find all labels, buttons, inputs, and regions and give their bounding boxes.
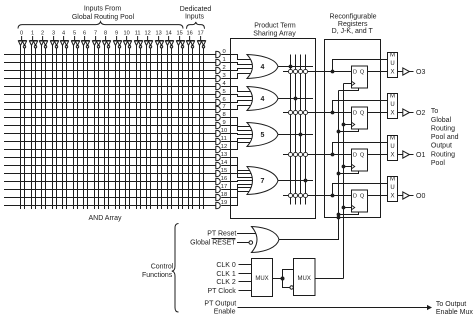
input 9 buffer pair (true/complement) — [113, 30, 121, 48]
svg-text:U: U — [390, 102, 394, 108]
flip-flop O2 (D Q register) — [352, 107, 368, 129]
svg-text:PT Output: PT Output — [204, 301, 236, 308]
wire: OR gate 2 output row — [278, 133, 313, 137]
svg-text:M: M — [390, 177, 395, 183]
input 10 buffer pair (true/complement) — [123, 30, 131, 48]
svg-text:D, J-K, and T: D, J-K, and T — [332, 28, 374, 35]
svg-text:Global RESET: Global RESET — [190, 239, 236, 246]
svg-text:10: 10 — [123, 30, 129, 36]
svg-text:M: M — [390, 53, 395, 59]
wire: CLK 2 input — [239, 281, 252, 283]
flip-flop O0 (D Q register) — [352, 190, 368, 212]
svg-text:AND Array: AND Array — [88, 215, 122, 222]
svg-text:Inputs: Inputs — [185, 14, 205, 21]
label: Inputs From Global Routing Pool — [72, 6, 135, 21]
svg-text:Functions: Functions — [142, 272, 173, 279]
product term 10 buffer and label — [216, 128, 227, 137]
input 5 buffer pair (true/complement) — [71, 30, 79, 48]
svg-text:Q: Q — [360, 153, 365, 159]
wire: PT 10 to OR gate input — [221, 134, 252, 135]
svg-text:U: U — [390, 61, 394, 67]
wire: PT 5 to OR gate input — [221, 95, 252, 97]
wire: PT 0 to OR gate input — [221, 55, 252, 60]
svg-text:O2: O2 — [416, 110, 425, 117]
wire: PT share output row O2 with fuse circles — [283, 110, 352, 114]
wire: PT 9 to OR gate input — [221, 126, 252, 131]
svg-text:14: 14 — [165, 30, 171, 36]
svg-text:4: 4 — [261, 96, 265, 103]
svg-text:D: D — [353, 194, 357, 200]
svg-text:PT Clock: PT Clock — [208, 288, 237, 295]
brace: control functions — [172, 224, 179, 313]
output buffer and label O2 — [398, 109, 426, 117]
wire: PT share output row O1 with fuse circles — [283, 152, 352, 156]
svg-text:1: 1 — [31, 30, 34, 36]
label: Global RESET (active low) — [190, 239, 236, 247]
svg-text:5: 5 — [261, 132, 265, 139]
svg-text:To Output: To Output — [436, 301, 466, 308]
product term 1 buffer and label — [216, 57, 226, 66]
svg-text:CLK 2: CLK 2 — [216, 279, 236, 286]
wire: CLK 1 input — [239, 273, 252, 275]
input 15 buffer pair (true/complement) — [176, 30, 184, 48]
svg-text:MUX: MUX — [255, 276, 268, 282]
junction: reset line at register box bottom — [337, 216, 341, 220]
OR gate (sum of 5 product terms) — [247, 123, 278, 147]
input 14 buffer pair (true/complement) — [165, 30, 173, 48]
wire: PT share output row O3 with fuse circles — [283, 69, 352, 73]
input 1 buffer pair (true/complement) — [29, 30, 37, 48]
product term 19 buffer and label — [216, 200, 227, 209]
wire: PT 12 to OR gate input — [221, 143, 252, 150]
svg-text:MUX: MUX — [298, 276, 311, 282]
svg-text:3: 3 — [52, 30, 55, 36]
product term 12 buffer and label — [216, 144, 227, 153]
input 16 buffer pair (true/complement) — [186, 30, 194, 48]
box: Product Term Sharing Array — [231, 39, 316, 219]
svg-text:2: 2 — [41, 30, 44, 36]
wire: product-term rows 0-19 (horizontal lines) — [4, 55, 216, 206]
wire: clock to register O2 — [342, 123, 352, 127]
svg-text:Routing: Routing — [431, 151, 455, 158]
svg-text:5: 5 — [73, 30, 76, 36]
output buffer and label O0 — [398, 192, 426, 200]
svg-text:12: 12 — [144, 30, 150, 36]
wire: clock MUX1 output — [273, 277, 285, 281]
svg-text:X: X — [390, 193, 394, 199]
wire: PT 13 to OR gate input — [221, 158, 252, 171]
svg-text:X: X — [390, 69, 394, 75]
svg-text:Global: Global — [431, 117, 452, 124]
flip-flop O3 (D Q register) — [352, 66, 368, 88]
svg-text:D: D — [353, 153, 357, 159]
box: Reconfigurable Registers — [325, 40, 381, 218]
wire: reset to register O0 — [337, 212, 359, 216]
wire: PT sharing array columns (4 vertical) — [291, 55, 306, 205]
svg-text:Product Term: Product Term — [254, 22, 296, 29]
svg-text:PT Reset: PT Reset — [207, 231, 236, 238]
label: Dedicated Inputs — [180, 6, 212, 21]
wire: AND array input columns (36 vertical lines) — [21, 46, 204, 210]
wire: PT Clock input — [239, 290, 252, 292]
wire: PT 3 to OR gate input — [221, 74, 252, 79]
wire: PT share output row O0 with fuse circles — [283, 193, 352, 197]
wire: PT 16 to OR gate input — [221, 181, 252, 182]
wire: PT Output Enable with arrow — [238, 305, 433, 310]
wire: PT 17 to OR gate input — [221, 185, 252, 190]
input 12 buffer pair (true/complement) — [144, 30, 152, 48]
svg-text:O3: O3 — [416, 69, 425, 76]
svg-text:17: 17 — [197, 30, 203, 36]
input 2 buffer pair (true/complement) — [39, 30, 47, 48]
product term 17 buffer and label — [216, 184, 227, 193]
label: To Output Enable Mux — [436, 301, 473, 316]
wire: O0 register bypass to MUX — [331, 184, 388, 198]
input 7 buffer pair (true/complement) — [92, 30, 100, 48]
svg-text:9: 9 — [115, 30, 118, 36]
label: To Global Routing Pool and Output Routing Pool — [431, 108, 459, 167]
svg-text:To: To — [431, 108, 439, 115]
output MUX for O1 — [388, 136, 398, 161]
product term 6 buffer and label — [216, 97, 226, 106]
product term 13 buffer and label — [216, 152, 227, 161]
wire: clock to register O1 — [342, 165, 352, 169]
output MUX for O0 — [388, 177, 398, 202]
output buffer and label O3 — [398, 68, 426, 76]
wire: PT 8 to OR gate input — [221, 118, 252, 127]
wire: register O1 Q output to MUX — [368, 154, 388, 156]
wire: PT 14 to OR gate input — [221, 166, 252, 174]
product term 2 buffer and label — [216, 65, 226, 74]
svg-text:Inputs From: Inputs From — [84, 6, 122, 13]
inverter bubble on Global RESET input — [249, 241, 253, 245]
svg-text:0: 0 — [20, 30, 23, 36]
svg-text:11: 11 — [135, 30, 141, 36]
svg-text:CLK 0: CLK 0 — [216, 262, 236, 269]
wire: reset OR output to reset line — [279, 239, 339, 240]
input 6 buffer pair (true/complement) — [81, 30, 89, 48]
svg-text:U: U — [390, 144, 394, 150]
wire: clock polarity branches — [283, 270, 294, 288]
svg-text:D: D — [353, 111, 357, 117]
input 3 buffer pair (true/complement) — [50, 30, 58, 48]
product term 9 buffer and label — [216, 120, 226, 129]
label: Reconfigurable Registers D, J-K, and T — [329, 14, 376, 35]
wire: reset to register O3 — [339, 88, 359, 91]
wire: PT Reset input — [237, 233, 256, 235]
wire: O3 register bypass to MUX — [331, 60, 388, 74]
wire: reset to register O2 — [337, 129, 359, 133]
wire: PT 7 to OR gate input — [221, 106, 252, 110]
wire: PT 2 to OR gate input — [221, 69, 252, 71]
input 11 buffer pair (true/complement) — [134, 30, 142, 48]
wire: CLK 0 input — [239, 264, 252, 266]
svg-text:Output: Output — [431, 143, 452, 150]
svg-text:8: 8 — [104, 30, 107, 36]
svg-text:X: X — [390, 110, 394, 116]
svg-text:Q: Q — [360, 70, 365, 76]
input 4 buffer pair (true/complement) — [60, 30, 68, 48]
label: PT Output Enable — [204, 301, 236, 316]
svg-text:O1: O1 — [416, 152, 425, 159]
wire: register O2 Q output to MUX — [368, 112, 388, 114]
wire: OR gate 1 output row — [278, 97, 313, 101]
wire: register reset distribution line — [338, 91, 340, 239]
wire: PT 1 to OR gate input — [221, 63, 252, 65]
OR gate (sum of 4 product terms) — [247, 55, 278, 79]
product term 18 buffer and label — [216, 192, 227, 201]
wire: register clock distribution line — [343, 84, 345, 279]
svg-text:Reconfigurable: Reconfigurable — [329, 14, 376, 21]
svg-text:16: 16 — [186, 30, 192, 36]
input 8 buffer pair (true/complement) — [102, 30, 110, 48]
wire: reset to register O1 — [337, 171, 359, 175]
wire: O1 register bypass to MUX — [331, 143, 388, 157]
product term 16 buffer and label — [216, 176, 227, 185]
wire: PT 4 to OR gate input — [221, 87, 252, 92]
product term 15 buffer and label — [216, 168, 227, 177]
svg-text:M: M — [390, 136, 395, 142]
input 13 buffer pair (true/complement) — [155, 30, 163, 48]
wire: OR gate 3 output row — [278, 179, 313, 183]
wire: Global RESET input — [237, 242, 249, 244]
label: Product Term Sharing Array — [253, 22, 296, 37]
OR gate (sum of 4 product terms) — [247, 87, 278, 111]
wire: clock to register O3 — [344, 83, 352, 85]
svg-text:Enable: Enable — [214, 308, 236, 315]
svg-text:Global Routing Pool: Global Routing Pool — [72, 14, 135, 21]
product term 7 buffer and label — [216, 104, 226, 113]
svg-text:4: 4 — [62, 30, 65, 36]
svg-text:Q: Q — [360, 194, 365, 200]
svg-text:7: 7 — [261, 178, 265, 185]
svg-text:15: 15 — [176, 30, 182, 36]
product term 4 buffer and label — [216, 81, 227, 90]
svg-text:13: 13 — [155, 30, 161, 36]
wire: PT 6 to OR gate input — [221, 101, 252, 103]
product term 0 buffer and label — [216, 49, 226, 58]
svg-text:Q: Q — [360, 111, 365, 117]
product term 5 buffer and label — [216, 89, 226, 98]
wire: register O0 Q output to MUX — [368, 195, 388, 197]
svg-text:Routing: Routing — [431, 125, 455, 132]
svg-text:4: 4 — [261, 64, 265, 71]
svg-text:Dedicated: Dedicated — [180, 6, 212, 13]
inverter bubble on inverted clock input — [290, 286, 293, 289]
wire: OR gate 0 output row — [278, 65, 313, 69]
product term 8 buffer and label — [216, 112, 226, 121]
svg-text:Sharing Array: Sharing Array — [253, 31, 296, 38]
OR gate (sum of 7 product terms) — [247, 167, 278, 195]
svg-text:X: X — [390, 152, 394, 158]
wire: PT 18 to OR gate input — [221, 188, 252, 198]
product term 11 buffer and label — [216, 136, 227, 145]
svg-text:Pool and: Pool and — [431, 134, 459, 141]
wire: clock to register O0 — [342, 206, 352, 210]
wire: O2 register bypass to MUX — [331, 101, 388, 115]
svg-text:6: 6 — [83, 30, 86, 36]
output MUX for O3 — [388, 53, 398, 78]
wire: PT 19 to OR gate input — [221, 192, 252, 206]
svg-text:O0: O0 — [416, 193, 425, 200]
svg-text:Enable Mux: Enable Mux — [436, 309, 473, 316]
svg-text:D: D — [353, 70, 357, 76]
product term 3 buffer and label — [216, 73, 226, 82]
label: Control Functions — [142, 264, 174, 279]
output buffer and label O1 — [398, 151, 426, 159]
svg-text:CLK 1: CLK 1 — [216, 271, 236, 278]
input 17 buffer pair (true/complement) — [197, 30, 205, 48]
wire: PT 11 to OR gate input — [221, 139, 252, 142]
wire: clock MUX2 output to clock line — [315, 278, 344, 280]
brace over inputs 16-17 — [187, 22, 205, 29]
OR gate: reset (PT Reset + Global RESET) — [252, 227, 280, 253]
input 0 buffer pair (true/complement) — [18, 30, 26, 48]
output MUX for O2 — [388, 94, 398, 119]
svg-text:Control: Control — [151, 264, 174, 271]
svg-text:U: U — [390, 185, 394, 191]
svg-text:M: M — [390, 94, 395, 100]
product term 14 buffer and label — [216, 160, 228, 169]
MUX: clock select (4:1) — [252, 259, 273, 297]
flip-flop O1 (D Q register) — [352, 149, 368, 171]
wire: register O3 Q output to MUX — [368, 71, 388, 73]
MUX: clock polarity (2:1) — [294, 259, 316, 296]
svg-text:7: 7 — [94, 30, 97, 36]
wire: PT 15 to OR gate input — [221, 174, 252, 178]
brace over inputs 0-15 — [18, 22, 183, 29]
svg-text:Pool: Pool — [431, 160, 445, 167]
